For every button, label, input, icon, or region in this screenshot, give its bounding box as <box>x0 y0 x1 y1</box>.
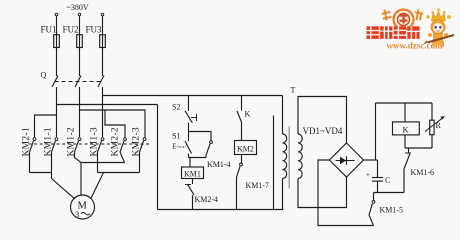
svg-text:3: 3 <box>75 209 79 219</box>
wire K and R bottom join <box>405 147 432 149</box>
wire phase A below Q <box>56 87 58 137</box>
pushbutton S2 (stop, NC) <box>172 103 197 123</box>
fuse FU3 <box>86 25 106 48</box>
contact KM1-7 (NO) <box>236 163 269 190</box>
wire phase C below Q <box>102 87 104 137</box>
logo mascot brush <box>428 35 455 43</box>
logo seal circle with character <box>394 10 414 30</box>
wire phase A from terminal to switch Q <box>56 16 58 76</box>
pushbutton S1 (start, NO) <box>172 132 192 154</box>
wire to motor right terminal <box>91 173 104 199</box>
wire KM1-2 bottom to motor <box>75 152 82 196</box>
wire KM2-3 bottom <box>139 152 141 173</box>
motor M 3~ <box>71 195 95 219</box>
svg-text:KM2-4: KM2-4 <box>195 195 219 204</box>
wire DC+ up to K coil branch <box>375 103 377 160</box>
watermark logo dzsc <box>367 8 455 50</box>
wire node to KM1-4 branch <box>189 132 212 141</box>
wire down to KM1 coil <box>189 158 191 168</box>
svg-text:K: K <box>403 124 410 134</box>
node L2 terminal <box>78 13 81 16</box>
wire down to K coil <box>404 103 406 122</box>
contact K (relay contact, NO) <box>237 110 251 123</box>
svg-text:K: K <box>245 110 251 119</box>
node L3 terminal <box>101 13 104 16</box>
wire phase A to control circuit left rail <box>57 104 158 106</box>
svg-text:VD1~VD4: VD1~VD4 <box>303 126 343 136</box>
contact KM1-1 <box>44 127 58 156</box>
svg-text:KM2-2: KM2-2 <box>111 127 121 156</box>
contact KM2-1 <box>22 127 36 156</box>
svg-text:KM1-7: KM1-7 <box>246 181 270 190</box>
logo text weiku <box>367 26 420 39</box>
wire KM1-1 bottom to motor <box>52 152 75 199</box>
wire bridge DC+ to capacitor branch <box>364 159 378 161</box>
resistor R (adjustable) <box>425 103 445 148</box>
control circuit left rail <box>157 105 159 210</box>
mechanical linkage dashed line of contactor bank <box>29 143 150 145</box>
svg-text:E-: E- <box>172 143 179 151</box>
wire join horizontal above KM1 coil <box>189 157 207 159</box>
svg-text:FU1: FU1 <box>41 25 57 35</box>
svg-text:www.dzsc.com: www.dzsc.com <box>387 41 443 51</box>
contact KM2-2 <box>111 127 127 156</box>
wire KM1-6 to capacitor bottom <box>403 169 405 193</box>
svg-text:S2: S2 <box>172 103 180 112</box>
svg-text:S1: S1 <box>172 132 180 141</box>
wire secondary bottom to bridge <box>298 177 347 208</box>
wire K coil branch top <box>376 102 433 104</box>
wire junction KM2-1 to KM1-1 <box>30 172 52 174</box>
wire K coil bottom <box>404 135 406 148</box>
wire KM1-3 bottom <box>97 152 99 173</box>
wire capacitor bottom horizontal <box>374 192 405 194</box>
control circuit bottom rail <box>158 209 284 211</box>
wire vertical near transformer <box>273 116 275 210</box>
transformer T primary winding <box>283 96 287 210</box>
switch Q (3-pole knife switch) <box>41 71 105 88</box>
svg-text:KM1-4: KM1-4 <box>207 160 231 169</box>
logo mascot body <box>433 34 444 45</box>
wire phase C to control circuit and transformer <box>103 95 283 97</box>
logo mascot head <box>431 20 445 34</box>
bridge rectifier VD1~VD4 diamond <box>330 143 364 177</box>
wire secondary top to bridge <box>298 97 347 144</box>
transformer T secondary winding <box>298 134 302 179</box>
wire bridge DC- to bottom rail of relay branch <box>318 160 374 226</box>
svg-text:R: R <box>436 121 442 130</box>
logo char pian <box>415 9 424 20</box>
transformer core <box>288 127 290 189</box>
capacitor C <box>366 160 390 193</box>
svg-text:FU3: FU3 <box>86 25 103 35</box>
wire node to S1 <box>188 132 190 142</box>
contact KM2-4 (interlock, NC) <box>185 184 218 204</box>
contact KM1-3 <box>90 127 104 156</box>
wire drop to contact K <box>241 96 243 111</box>
bridge diode symbol <box>336 156 355 164</box>
wire branch to contact KM2-2 <box>105 110 125 138</box>
wire down to KM1-6 <box>408 148 410 153</box>
relay coil K <box>393 122 420 135</box>
svg-text:KM2: KM2 <box>237 144 254 153</box>
wire S1 bottom join <box>188 154 190 158</box>
wire KM1-7 to bottom rail <box>236 178 238 210</box>
wire junction KM1-3 to KM2-3 <box>98 172 140 174</box>
wire KM1 coil to KM2-4 <box>192 179 194 185</box>
node L1 terminal <box>55 13 58 16</box>
wire KM1-4 bottom join <box>205 155 207 157</box>
logo char zhao <box>382 9 392 20</box>
svg-text:+: + <box>366 171 370 179</box>
wire K to KM2 coil <box>241 122 243 141</box>
contact KM1-6 (NC) <box>404 153 434 177</box>
contact KM2-3 <box>132 127 146 156</box>
svg-text:FU2: FU2 <box>63 25 79 35</box>
contact KM1-2 <box>67 127 81 156</box>
fuse FU2 <box>63 25 83 48</box>
logo mascot crown <box>432 11 446 21</box>
wire KM2-1 bottom <box>29 152 31 173</box>
wire KM2 coil to KM1-7 <box>241 155 243 164</box>
coil KM2 <box>235 141 257 155</box>
wire phase B branch to contact KM2-3 <box>80 110 146 138</box>
svg-text:T: T <box>291 86 296 95</box>
wire KM2-2 bottom <box>120 152 125 163</box>
wire S2 to node <box>188 123 190 132</box>
wire KM2-4 to bottom rail <box>192 195 194 209</box>
contact KM1-5 (NO) <box>369 193 403 226</box>
wire phase C from terminal to switch Q <box>102 16 104 76</box>
svg-text:C: C <box>385 176 390 185</box>
svg-text:KM1-6: KM1-6 <box>411 168 435 177</box>
fuse FU1 <box>41 25 60 48</box>
contact KM1-4 (holding) <box>206 141 231 169</box>
svg-text:~380V: ~380V <box>67 3 89 12</box>
wire phase B from terminal to switch Q <box>79 16 81 76</box>
svg-text:Q: Q <box>41 71 47 80</box>
wire drop to S2 <box>188 96 190 112</box>
svg-text:KM1-5: KM1-5 <box>380 206 404 215</box>
wire branch to contact KM2-1 <box>35 115 57 138</box>
wire phase B below Q <box>79 87 81 137</box>
coil KM1 <box>182 167 204 179</box>
wire junction KM1-2 to KM2-2 <box>81 162 125 164</box>
svg-text:KM1: KM1 <box>184 170 201 179</box>
